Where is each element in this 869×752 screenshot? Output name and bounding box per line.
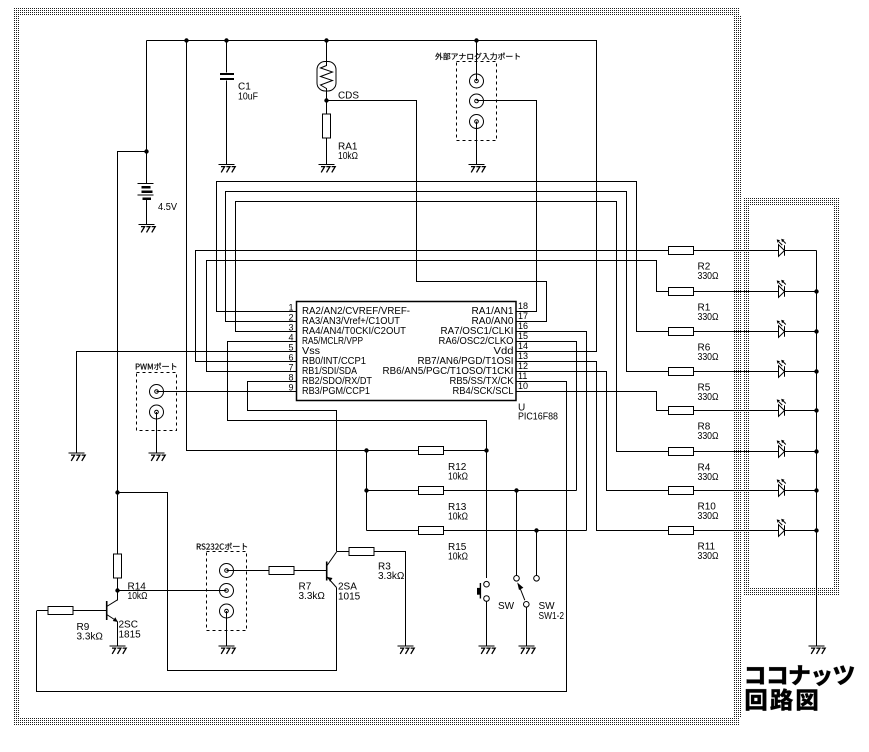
svg-text:10kΩ: 10kΩ: [448, 512, 468, 523]
wire analog port to pin18 riser: [477, 101, 537, 312]
wire pin12 to R10 route: [516, 372, 669, 491]
wire LED3 to cathode bus: [785, 331, 817, 333]
wire SW1-2 common to ground: [525, 607, 527, 645]
wire LED8 to cathode bus: [785, 530, 817, 532]
junction rail to analog port: [474, 38, 478, 42]
wire battery negative: [146, 200, 148, 224]
wire R4 to LED6: [694, 451, 779, 453]
ground Vss: [69, 453, 86, 461]
resistor R8: [669, 407, 694, 415]
svg-text:330Ω: 330Ω: [698, 271, 719, 282]
svg-text:15: 15: [518, 331, 528, 341]
connector J2-1: [150, 385, 164, 399]
LED array enclosure: [743, 197, 839, 595]
resistor R15: [419, 527, 444, 535]
wire R14 to collector node: [117, 578, 119, 601]
svg-text:11: 11: [518, 371, 527, 381]
wire R13 left: [367, 490, 419, 492]
junction pullup bus top: [364, 448, 368, 452]
wire R6 to LED3: [694, 331, 779, 333]
junction battery branch: [144, 149, 148, 153]
svg-text:13: 13: [518, 351, 528, 361]
ground analog port: [469, 164, 486, 172]
resistor R9: [48, 607, 73, 615]
svg-text:SW: SW: [498, 601, 515, 612]
svg-text:330Ω: 330Ω: [698, 352, 719, 363]
wire R15 to SW2: [444, 530, 587, 532]
wire pullup riser from rail: [187, 41, 419, 451]
wire R11 to LED8: [694, 530, 779, 532]
wire R1 to LED2: [694, 291, 779, 293]
wire Q2 collector to R3: [337, 551, 350, 553]
ground battery: [139, 224, 156, 232]
wire R5 to LED4: [694, 371, 779, 373]
wire +V to Q2 emitter: [118, 493, 337, 671]
ground Q1: [110, 646, 127, 654]
ground RA1: [319, 164, 336, 172]
svg-text:16: 16: [518, 321, 528, 331]
resistor R2: [669, 247, 694, 255]
connector J1-2: [470, 94, 484, 108]
svg-text:17: 17: [518, 311, 528, 321]
wire R13 to SW1: [444, 490, 577, 492]
wire collector node to RS232 RXD: [118, 590, 220, 592]
resistor R12: [419, 447, 444, 455]
logo text circuit diagram: [746, 688, 818, 710]
wire R15 left: [367, 530, 419, 532]
wire R7 to Q2 base: [294, 570, 327, 572]
transistor Q1 2SC1815: [107, 600, 118, 622]
resistor R14: [114, 554, 122, 578]
wire R8 to LED5: [694, 410, 779, 412]
svg-text:1815: 1815: [119, 630, 142, 641]
junction cathode bus row R5: [814, 369, 818, 373]
ground R3: [398, 646, 415, 654]
wire battery positive: [146, 41, 148, 184]
label RS232C port: [197, 543, 247, 550]
wire pin10 to R8 route: [516, 392, 669, 411]
wire pin16 to R15 riser: [516, 332, 587, 531]
LED D4: [777, 360, 786, 378]
svg-text:10kΩ: 10kΩ: [448, 552, 468, 563]
junction cathode bus row R8: [814, 408, 818, 412]
wire +4.5V top rail: [147, 41, 597, 352]
svg-text:12: 12: [518, 361, 528, 371]
LED D3: [777, 320, 786, 338]
svg-text:10kΩ: 10kΩ: [128, 591, 148, 602]
battery BT1 4.5V: [138, 183, 154, 200]
connector J2-2: [150, 405, 164, 419]
wire pin7 to R1 route: [207, 261, 669, 372]
svg-text:1: 1: [288, 303, 293, 313]
wire pin1 to R6 route: [217, 182, 669, 332]
wire LED5 to cathode bus: [785, 410, 817, 412]
svg-text:PIC16F88: PIC16F88: [518, 412, 558, 423]
resistor R11: [669, 527, 694, 535]
svg-text:330Ω: 330Ω: [698, 431, 719, 442]
junction rail to CDS: [324, 38, 328, 42]
junction cathode bus row R1: [814, 289, 818, 293]
svg-text:CDS: CDS: [338, 91, 359, 102]
connector J1-3: [470, 115, 484, 129]
wire J3-2 stub: [220, 590, 227, 592]
wire +4.5V branch to R14 column: [118, 152, 147, 555]
wire pin8 RX to transistor Q2: [248, 382, 337, 552]
switch SW1-2 toggle: [514, 576, 540, 608]
connector J3-2: [220, 584, 234, 598]
svg-text:7: 7: [288, 363, 293, 373]
resistor R3: [349, 548, 374, 556]
junction +V to R14/Q2 feed: [115, 490, 119, 494]
wire SW to ground: [486, 601, 488, 645]
junction cathode bus row R6: [814, 329, 818, 333]
svg-text:330Ω: 330Ω: [698, 551, 719, 562]
svg-text:18: 18: [518, 301, 528, 311]
junction rail to C1: [224, 38, 228, 42]
logo text Coconuts: [747, 665, 855, 686]
resistor R5: [669, 368, 694, 376]
LED D5: [777, 399, 786, 417]
LED D8: [777, 519, 786, 537]
photoresistor CDS: [317, 62, 336, 92]
wire SW2 throw riser: [536, 531, 538, 576]
svg-text:4: 4: [288, 333, 293, 343]
label PWM port: [136, 363, 177, 370]
wire rail to analog port: [476, 41, 478, 82]
wire J3-1 to R7: [227, 570, 270, 572]
resistor R10: [669, 487, 694, 495]
port J3 RS232C box: [207, 552, 247, 631]
svg-text:6: 6: [288, 353, 293, 363]
junction cathode bus row R10: [814, 488, 818, 492]
svg-text:RB4/SCK/SCL: RB4/SCK/SCL: [453, 386, 514, 397]
wire pin11 TX to R9 route: [37, 382, 567, 692]
wire CDS node to pin17 riser: [327, 101, 547, 322]
label analog input port: [435, 53, 520, 60]
wire pin9 CCP1 to PWM port: [164, 391, 297, 393]
wire R10 to LED7: [694, 490, 779, 492]
wire pin15 to R13 riser: [516, 342, 577, 491]
junction pullup R13: [364, 488, 368, 492]
wire SW1 throw riser: [516, 491, 518, 576]
wire pullup bus: [366, 451, 368, 531]
port J1 analog input box: [457, 62, 497, 141]
svg-text:3.3kΩ: 3.3kΩ: [378, 571, 405, 582]
wire R2 to LED1: [694, 250, 779, 252]
svg-text:9: 9: [288, 383, 293, 393]
wire pin2 to R5 route: [226, 192, 669, 372]
LED D6: [777, 440, 786, 458]
ground C1: [219, 164, 236, 172]
junction R13 SW1 throw: [514, 488, 518, 492]
svg-text:10uF: 10uF: [238, 92, 258, 103]
svg-text:1015: 1015: [338, 592, 361, 603]
svg-text:4.5V: 4.5V: [158, 202, 177, 213]
svg-text:10kΩ: 10kΩ: [448, 472, 468, 483]
switch SW reset button: [477, 581, 489, 601]
junction R12 reset node: [484, 448, 488, 452]
svg-text:5: 5: [288, 343, 293, 353]
capacitor C1: [220, 73, 234, 80]
svg-text:10: 10: [518, 381, 528, 391]
resistor R13: [419, 487, 444, 495]
svg-text:10kΩ: 10kΩ: [338, 151, 358, 162]
port J2 PWM box: [137, 373, 177, 431]
wire LED4 to cathode bus: [785, 371, 817, 373]
junction R15 SW2 throw: [534, 528, 538, 532]
wire analog port ground pin: [476, 122, 478, 165]
wire R12 to reset node: [444, 450, 487, 452]
IC U1 PIC16F88 body: [297, 302, 517, 401]
wire J2-1 stub: [157, 391, 164, 393]
connector J3-1: [220, 564, 234, 578]
LED D7: [777, 479, 786, 497]
connector J1-1: [470, 74, 484, 88]
svg-text:3: 3: [288, 323, 293, 333]
svg-text:8: 8: [288, 373, 293, 383]
wire R3 to ground: [374, 552, 406, 646]
junction cathode bus row R4: [814, 449, 818, 453]
ground RS232C: [219, 646, 236, 654]
wire RS232C ground pin: [226, 611, 228, 646]
LED D1: [777, 239, 786, 256]
ground LED bus: [809, 646, 826, 654]
junction CDS output: [324, 98, 328, 102]
resistor R1: [669, 288, 694, 296]
wire LED2 to cathode bus: [785, 291, 817, 293]
svg-text:3.3kΩ: 3.3kΩ: [77, 632, 104, 643]
wire pin5 Vss to ground: [77, 352, 297, 453]
resistor R7: [269, 567, 294, 575]
wire PWM ground pin: [156, 412, 158, 453]
wire CDS to RA1: [326, 91, 328, 114]
svg-text:330Ω: 330Ω: [698, 472, 719, 483]
wire pin3 to R4 route: [236, 202, 669, 452]
wire Q1 base to R9: [74, 610, 107, 612]
svg-text:RB3/PGM/CCP1: RB3/PGM/CCP1: [302, 386, 370, 397]
junction cathode bus row R11: [814, 528, 818, 532]
wire Q1 emitter to ground: [117, 622, 119, 646]
wire pin13 to R11 route: [516, 362, 669, 531]
transistor Q2 2SA1015: [327, 552, 337, 588]
wire LED cathode bus: [816, 251, 818, 646]
wire LED6 to cathode bus: [785, 451, 817, 453]
ground SW1-2: [518, 646, 535, 654]
ground PWM port: [149, 453, 166, 461]
svg-text:330Ω: 330Ω: [698, 511, 719, 522]
svg-text:3.3kΩ: 3.3kΩ: [299, 591, 326, 602]
junction Q1 collector node: [115, 588, 119, 592]
wire pin4 MCLR to reset switch: [228, 342, 487, 579]
svg-text:2: 2: [288, 313, 293, 323]
wire LED7 to cathode bus: [785, 490, 817, 492]
ground SW: [479, 646, 496, 654]
wire C1 to ground: [226, 81, 228, 165]
junction rail to pullup riser: [184, 38, 188, 42]
wire pin6 to R2 route: [196, 251, 669, 362]
wire R9 left: [37, 610, 49, 612]
svg-text:330Ω: 330Ω: [698, 312, 719, 323]
LED D2: [777, 280, 786, 298]
svg-text:SW1-2: SW1-2: [539, 611, 565, 622]
resistor R4: [669, 448, 694, 456]
resistor R6: [669, 328, 694, 336]
wire rail to CDS: [326, 41, 328, 64]
wire RA1 to ground: [326, 138, 328, 164]
resistor RA1: [323, 114, 331, 138]
svg-text:14: 14: [518, 341, 528, 351]
wire LED1 to cathode bus: [785, 250, 817, 252]
connector J3-3: [220, 604, 234, 618]
wire rail to C1: [226, 41, 228, 73]
svg-text:330Ω: 330Ω: [698, 392, 719, 403]
